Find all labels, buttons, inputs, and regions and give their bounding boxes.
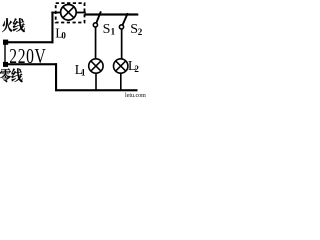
svg-text:1: 1 bbox=[81, 68, 86, 78]
wire lamp L0 left stub bbox=[51, 12, 60, 14]
svg-text:2: 2 bbox=[134, 64, 139, 74]
wire neutral bottom run bbox=[55, 89, 138, 91]
svg-text:2: 2 bbox=[138, 27, 143, 37]
svg-text:1: 1 bbox=[111, 27, 116, 37]
wire live top run bbox=[85, 13, 139, 15]
wire L2 to bottom bbox=[120, 73, 122, 90]
svg-text:letu.com: letu.com bbox=[125, 93, 146, 99]
switch S1 pivot bbox=[93, 23, 97, 27]
dashed box around L0 bbox=[56, 3, 85, 22]
lamp L0 bbox=[61, 5, 77, 21]
wire live horizontal bbox=[5, 41, 54, 43]
switch S2 blade bbox=[122, 13, 128, 26]
lamp L2 bbox=[114, 59, 128, 73]
wire lamp L0 right stub bbox=[76, 12, 86, 14]
wire S2 to L2 bbox=[121, 29, 123, 59]
svg-text:0: 0 bbox=[61, 31, 66, 41]
switch S1 blade bbox=[96, 11, 101, 24]
220V source lead vertical bbox=[4, 44, 5, 63]
svg-text:S: S bbox=[103, 22, 111, 37]
switch S2 pivot bbox=[119, 25, 123, 29]
label 火线 (live wire) bbox=[2, 18, 25, 32]
terminal square neutral bbox=[3, 62, 8, 67]
wire live riser bbox=[51, 12, 53, 44]
wire neutral horizontal bbox=[5, 63, 57, 65]
wire S1 to L1 bbox=[95, 27, 97, 59]
terminal square live bbox=[3, 40, 8, 45]
label 零线 (neutral wire) bbox=[0, 68, 22, 82]
wire neutral step down bbox=[55, 63, 57, 91]
lamp L1 bbox=[89, 59, 103, 73]
wire L1 to bottom bbox=[95, 73, 97, 90]
